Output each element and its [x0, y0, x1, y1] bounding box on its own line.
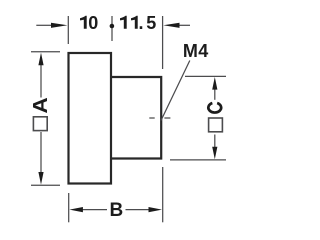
- svg-text:.: .: [139, 13, 144, 33]
- svg-text:B: B: [110, 200, 124, 221]
- svg-text:A: A: [29, 97, 51, 113]
- svg-text:M4: M4: [183, 41, 209, 61]
- svg-text:0: 0: [88, 13, 98, 33]
- svg-text:5: 5: [146, 13, 156, 33]
